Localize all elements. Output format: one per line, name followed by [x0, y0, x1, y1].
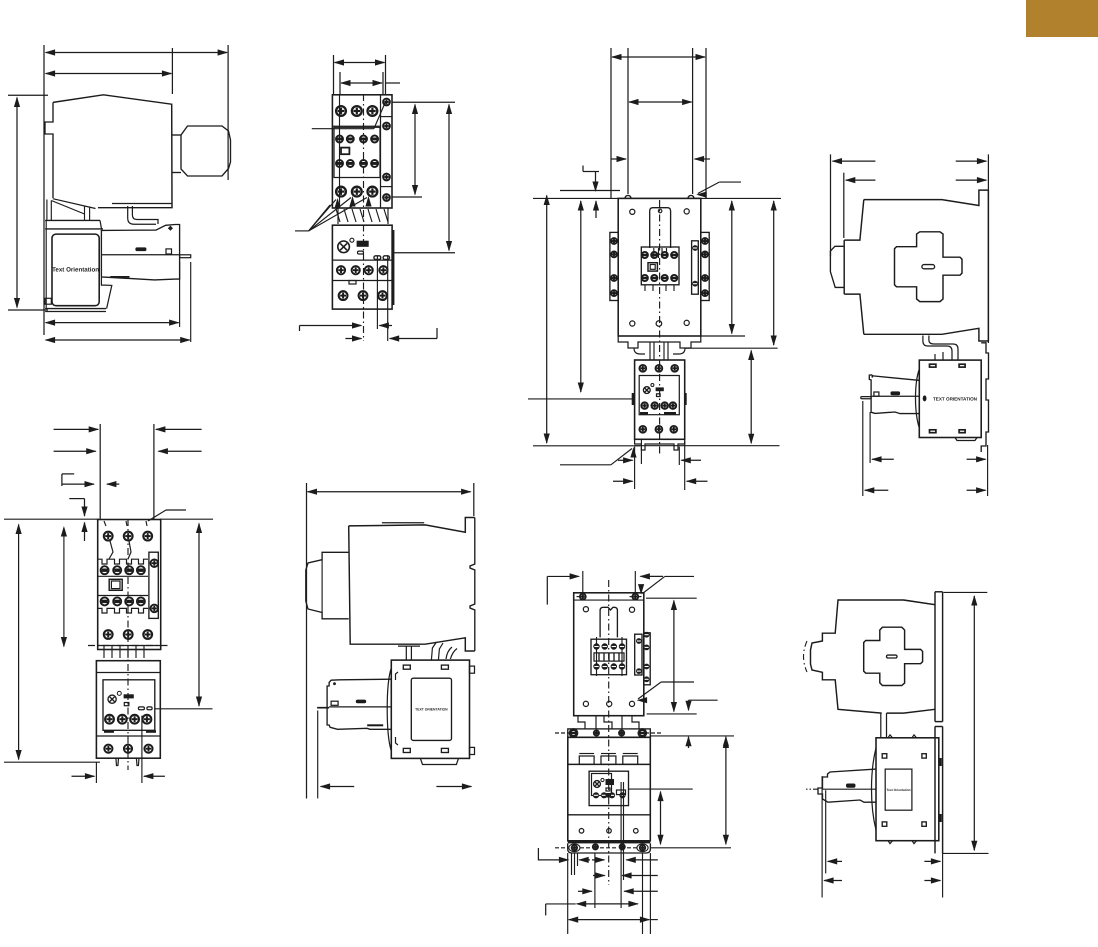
fig4 bottom dims — [862, 401, 864, 496]
svg-text:Text Orientation: Text Orientation — [52, 267, 99, 274]
fig7 relay module — [589, 771, 628, 805]
fig3 bottom legs — [618, 336, 701, 348]
fig2 leader to corner screw — [312, 128, 374, 130]
fig1 mounting plate — [45, 219, 100, 221]
fig4 dims — [830, 154, 832, 256]
fig1 foot — [53, 199, 96, 209]
fig8 relay side unit — [818, 769, 876, 802]
fig5 right dim — [198, 524, 200, 707]
fig6 rail right — [470, 518, 475, 652]
fig7 right top dim — [646, 597, 697, 599]
fig1 wires — [128, 206, 156, 224]
fig3 right dims — [731, 201, 733, 334]
fig6 overload body — [391, 660, 469, 758]
svg-text:TEXT ORIENTATION: TEXT ORIENTATION — [933, 396, 978, 401]
fig6 body — [349, 518, 475, 533]
fig2 bottom terminal screws — [336, 187, 346, 197]
fig3 center dash — [659, 200, 661, 456]
fig3 center tongue — [650, 208, 671, 248]
fig2 overload mid screws — [337, 266, 345, 274]
fig1 overload right unit — [101, 225, 179, 280]
fig4 cross cutout — [895, 232, 963, 302]
fig7 top brackets — [547, 575, 578, 577]
fig3 bottom-left leader — [560, 464, 611, 466]
fig2 centerline — [363, 94, 365, 341]
fig7 bottom legs — [578, 716, 585, 729]
fig7 bottom ears — [568, 840, 651, 843]
fig5 small bracket dims — [62, 473, 74, 475]
fig3 aux cluster — [641, 247, 679, 285]
fig2 connection zone — [336, 209, 340, 222]
fig5 top screws — [104, 532, 113, 541]
fig4 overload body — [919, 360, 981, 437]
fig8 cross cutout — [864, 627, 923, 685]
fig4 wires — [923, 336, 952, 361]
fig3 top dims — [612, 56, 705, 58]
fig2 leader fan — [295, 230, 309, 232]
fig7 leader right — [629, 788, 693, 790]
fig3 bottom dims — [634, 447, 636, 489]
fig7 dim rows — [537, 848, 539, 861]
fig5 left dims — [18, 525, 20, 760]
fig7 leader mid — [638, 682, 661, 699]
fig5 bottom screws — [104, 630, 113, 639]
fig5 top dims — [54, 428, 99, 430]
fig7 right bracket — [689, 699, 718, 701]
fig4 body — [864, 190, 989, 205]
fig4 relay side unit — [869, 375, 920, 414]
fig4 right rail — [981, 343, 988, 452]
fig5 aux row1 — [101, 566, 109, 574]
fig2 overload dial — [338, 241, 350, 253]
fig3 overload body — [635, 360, 685, 439]
fig5 bottom dims — [95, 762, 97, 783]
fig3 top ext lines — [610, 48, 612, 198]
fig2 aux block — [334, 127, 380, 177]
fig6 knob — [306, 552, 349, 619]
fig3 left dims — [546, 196, 548, 444]
svg-text:Text Orientation: Text Orientation — [886, 788, 910, 792]
fig7 tongue — [600, 607, 617, 637]
fig7 centerline — [608, 580, 610, 885]
fig3 left strip — [610, 232, 618, 300]
fig8 overload body — [876, 738, 939, 841]
fig7 overload body — [568, 737, 651, 841]
fig3 offset bracket — [583, 171, 599, 173]
fig5 centerline — [127, 519, 129, 770]
fig5 bottom pins — [116, 758, 119, 765]
fig7 lower band — [568, 814, 651, 816]
fig8 mounting plate — [934, 592, 936, 722]
fig5 comb top — [98, 559, 148, 564]
fig8 right dim — [973, 596, 975, 850]
fig2 bottom dims — [300, 325, 362, 327]
fig7 terminal cluster — [591, 639, 627, 675]
fig6 relay side unit — [327, 679, 391, 729]
fig2 right column screws — [383, 99, 390, 106]
fig1 contactor body — [53, 95, 172, 208]
fig3 bottom tabs — [635, 439, 685, 450]
fig8 pedestal — [880, 713, 882, 738]
fig1 left dim — [8, 94, 48, 96]
fig6 pin — [317, 707, 329, 709]
fig7 right dims — [660, 792, 662, 845]
fig3 leader top-right — [698, 182, 719, 193]
fig7 body — [574, 593, 644, 716]
fig5 lead wires — [109, 541, 113, 559]
fig5 baselines — [4, 518, 99, 520]
fig3 right aux bar — [692, 241, 699, 294]
fig1 knob — [172, 134, 181, 136]
fig3 right strip — [701, 232, 709, 300]
fig8 bottom line — [943, 852, 989, 854]
svg-text:TEXT ORIENTATION: TEXT ORIENTATION — [415, 708, 448, 712]
fig6 pedestal — [405, 646, 407, 660]
fig8 bottom dims — [821, 776, 823, 897]
fig5 top ext lines — [99, 424, 101, 519]
fig5 comb bottom — [98, 608, 148, 613]
fig1 overload left block (Text Orientation) — [52, 234, 99, 306]
fig1 pin — [180, 255, 191, 258]
fig2 top dims — [333, 55, 335, 94]
fig2 right dims — [392, 101, 455, 103]
fig1 bottom dims — [179, 262, 181, 327]
fig5 right bar — [149, 552, 158, 618]
fig6 top dim — [308, 491, 471, 493]
orange corner banner — [1026, 0, 1098, 37]
fig3 overload leader left — [528, 398, 634, 400]
fig2 overload body — [332, 225, 392, 309]
fig7 right bars — [635, 634, 642, 675]
fig2 top terminal screws — [336, 106, 346, 116]
fig6 bottom dims — [317, 711, 319, 799]
fig5 leader top right — [148, 510, 166, 521]
fig5 aux row2 — [101, 597, 109, 605]
fig5 overload body — [96, 661, 160, 759]
fig5 lower comb — [88, 645, 170, 647]
fig2 overload low screws — [339, 291, 348, 300]
fig8 body — [811, 600, 936, 713]
fig5 mid square — [109, 579, 122, 590]
fig3 top baseline — [560, 190, 620, 192]
fig2 contactor body — [332, 95, 392, 208]
fig4 pin — [861, 397, 871, 399]
fig7 mount ears top — [568, 729, 651, 738]
fig3 body — [618, 198, 701, 336]
fig5 body — [98, 520, 161, 650]
fig1 dims top — [46, 52, 228, 54]
fig7 vertical ext lines — [571, 853, 573, 875]
